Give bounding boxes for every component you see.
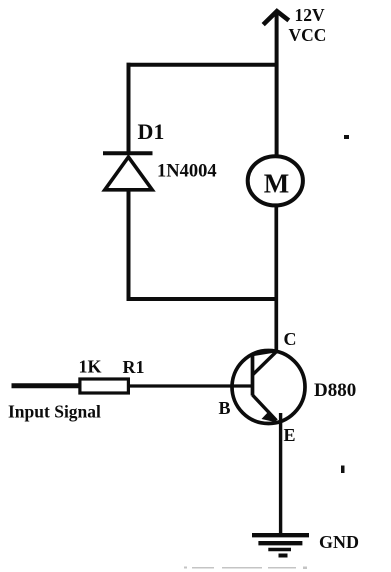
svg-text:GND: GND [319,532,359,552]
svg-text:E: E [284,425,296,445]
svg-text:VCC: VCC [289,25,327,45]
svg-text:C: C [284,329,297,349]
svg-text:12V: 12V [295,5,326,25]
faint bottom marks [184,567,307,570]
motor M1 circle [248,156,303,205]
wire top horizontal [127,63,279,67]
stray dot top right [344,135,349,139]
wire diode branch upper [127,63,131,154]
ground symbol [252,535,309,555]
svg-text:D880: D880 [314,380,356,401]
transistor emitter line [253,395,277,421]
resistor R1 box [80,379,128,393]
diode D1 triangle [105,157,152,190]
svg-text:1N4004: 1N4004 [157,161,217,181]
svg-text:R1: R1 [123,357,145,377]
transistor Q1 circle [232,351,305,424]
svg-text:B: B [219,398,231,418]
emitter arrowhead [262,411,278,423]
wire emitter to ground [279,413,282,535]
transistor base bar [251,353,255,396]
wire resistor to base [130,384,251,387]
svg-text:1K: 1K [79,357,102,377]
stray dot right middle [341,466,345,474]
wire diode branch lower [127,190,131,301]
power VCC arrow [263,11,289,155]
input wire [12,383,80,388]
wire bottom horizontal [127,297,278,301]
svg-text:D1: D1 [138,119,165,144]
diode D1 cathode bar [103,151,153,155]
transistor collector wedge [253,351,278,376]
wire motor to collector node [274,205,278,351]
svg-text:Input Signal: Input Signal [8,402,101,422]
svg-text:M: M [264,169,289,199]
